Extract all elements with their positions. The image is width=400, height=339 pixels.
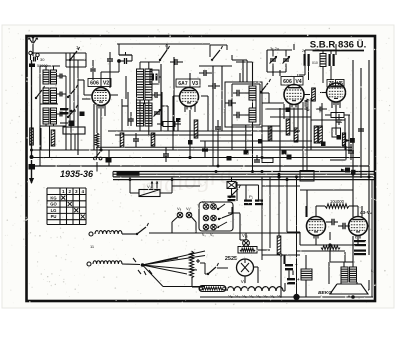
trim cross — [196, 259, 200, 263]
wire mesh tl2 — [82, 60, 91, 99]
junction band dots2 — [215, 170, 371, 181]
coil L7 — [95, 231, 122, 234]
dial cord 4 — [143, 265, 206, 287]
capacitor C18 — [326, 219, 338, 226]
wire out bot — [297, 245, 346, 251]
label 100000v — [351, 102, 353, 138]
coil L4 — [249, 108, 256, 122]
wire drop x345 — [344, 118, 346, 150]
label CT2 — [270, 46, 280, 51]
capacitor C17 + — [255, 200, 300, 285]
box IF2 — [225, 82, 262, 127]
wire drop x284 — [283, 104, 285, 119]
wire V4 plate — [304, 94, 310, 96]
capacitor C27 — [128, 112, 134, 126]
coil L2 1000 — [145, 69, 152, 100]
capacitor C3 — [57, 92, 67, 97]
resistor R22 — [194, 120, 198, 138]
resistor R8 — [151, 133, 155, 146]
wire drop x232 — [231, 125, 233, 150]
box oscillator — [128, 92, 162, 126]
ground arrow left — [29, 160, 34, 184]
wire spk side — [368, 268, 375, 290]
wire drop x322 — [321, 103, 323, 128]
svg-text:BEKO: BEKO — [318, 290, 332, 296]
label P1 — [147, 184, 153, 189]
tube V6a — [307, 217, 326, 239]
wire IF2 mid — [245, 93, 256, 115]
tube V2 — [92, 88, 110, 109]
switch S5 — [159, 43, 170, 61]
wire pot right — [160, 177, 172, 193]
wire x178 seg — [176, 118, 181, 131]
resistor R20 100000 — [325, 199, 349, 208]
trimmer CT1 — [154, 110, 161, 117]
transformer T4a — [341, 267, 348, 282]
svg-text:V₁: V₁ — [270, 294, 275, 299]
svg-text:V2: V2 — [103, 81, 109, 87]
junction J2 — [227, 156, 232, 161]
svg-text:V₆: V₆ — [210, 233, 214, 237]
wire x242 v — [241, 172, 243, 178]
node dots extra — [100, 149, 264, 174]
box out2 — [332, 128, 346, 146]
capacitor C28 — [208, 83, 220, 89]
wire v7 taps — [228, 267, 258, 283]
potentiometer P1 — [139, 190, 160, 197]
switch S10 mains — [207, 263, 219, 275]
wire L8 out — [122, 263, 140, 266]
junction dots band — [30, 149, 355, 179]
wire mains — [200, 263, 228, 274]
dial cord 2 — [143, 256, 206, 266]
svg-text:V₅: V₅ — [242, 294, 247, 299]
antenna terminal A2 — [36, 53, 39, 56]
svg-text:GO: GO — [50, 202, 57, 207]
trimmer CT2 — [270, 50, 277, 70]
svg-text:+: + — [295, 262, 298, 267]
wire mesh d3 — [270, 108, 280, 172]
selector blade3 — [217, 222, 227, 228]
wire pot left — [130, 177, 139, 193]
wire x49 drop — [49, 126, 51, 158]
svg-text:100000: 100000 — [330, 199, 345, 204]
box feedback — [300, 171, 314, 182]
label V4 — [281, 77, 303, 86]
wire vert x353 — [352, 60, 354, 217]
resistor R10 — [268, 126, 272, 141]
wire pot feed — [129, 177, 174, 181]
transformer T4b — [350, 267, 357, 282]
svg-text:+: + — [297, 277, 300, 282]
wire out vert — [297, 251, 346, 262]
svg-text:LG: LG — [51, 208, 57, 213]
coil T2a — [43, 88, 49, 103]
wire bus y131 — [108, 130, 300, 132]
wire coil mid — [40, 103, 58, 105]
wire y120 right — [311, 118, 345, 122]
wire choke vert — [305, 255, 307, 262]
wire mesh c1 — [122, 55, 132, 131]
capacitor C29 — [358, 120, 364, 140]
wire x110 — [109, 66, 111, 88]
dial hub — [141, 263, 145, 267]
lamp bank row2 — [203, 215, 216, 221]
pilot lamp box — [227, 182, 236, 189]
wire drop x218 — [217, 135, 219, 166]
capacitor C4 — [57, 112, 67, 117]
wire out x362 — [361, 206, 363, 217]
wire y160 r — [330, 146, 346, 160]
capacitor C25 — [163, 147, 169, 162]
capacitor C2 — [57, 74, 67, 79]
tube V4 — [284, 85, 304, 108]
wire v2 screen — [78, 80, 84, 88]
wire V3 plate — [201, 95, 208, 97]
lamp bank row1 — [203, 204, 216, 210]
wire vert x270b — [269, 177, 271, 248]
svg-text:3: 3 — [75, 189, 78, 194]
wire L7 out — [122, 233, 136, 235]
wire out right — [325, 206, 369, 226]
wire drop v3 — [189, 110, 191, 158]
junction J6 — [321, 142, 326, 147]
wire bus y135 — [115, 134, 252, 136]
box mid left — [63, 127, 85, 134]
wire psu mesh — [265, 248, 293, 275]
label 2525 — [225, 256, 237, 262]
dial fan extra — [143, 258, 198, 270]
wire V2 top — [101, 61, 119, 87]
wire coil bottom — [40, 124, 66, 126]
terminal T1 — [89, 232, 95, 249]
label V10 — [242, 233, 248, 238]
node left rail — [30, 155, 34, 159]
svg-text:2: 2 — [68, 189, 71, 194]
resistor R23 — [305, 99, 309, 111]
resistor R2 40000 — [145, 103, 152, 126]
svg-text:V₇: V₇ — [263, 294, 268, 299]
wire R18 box — [192, 277, 200, 287]
wire v5 pins — [332, 102, 340, 109]
junction J5 — [346, 138, 355, 143]
svg-text:30: 30 — [40, 57, 45, 62]
resistor R25 — [95, 116, 99, 158]
wire top tie — [190, 40, 336, 55]
switch S9 — [229, 185, 241, 198]
wire x349 drop — [348, 115, 350, 150]
trimmer CT3 — [283, 50, 290, 70]
wire drop x311 — [310, 110, 312, 150]
svg-text:V₂: V₂ — [228, 294, 233, 299]
junction J10 — [106, 150, 112, 166]
bottom bus thick — [200, 296, 373, 298]
wire top h44 — [101, 44, 336, 50]
wire band stub — [113, 171, 140, 177]
resistor R21 — [321, 246, 340, 250]
wire top loop1 — [119, 44, 160, 55]
wire bus y233 — [149, 232, 300, 234]
wire C30 drops — [305, 50, 335, 83]
wire out mesh2 — [300, 171, 353, 218]
junction J12 — [341, 168, 350, 173]
switch S2 — [67, 85, 78, 98]
capacitor C5 — [119, 52, 132, 64]
svg-text:V₄: V₄ — [235, 294, 240, 299]
capacitor C12 — [215, 120, 221, 135]
node C5 — [117, 59, 121, 63]
switch S3 — [67, 105, 78, 118]
wire pilot feed — [232, 182, 237, 201]
capacitor C30 — [304, 54, 310, 66]
junction J11 — [286, 108, 292, 160]
capacitor C6 — [152, 92, 162, 98]
tube V6b — [349, 217, 368, 239]
wire x41 v — [40, 128, 42, 150]
wire drop x262 — [261, 125, 263, 158]
resistor R13 — [314, 126, 318, 143]
capacitor C23 — [225, 100, 236, 107]
band table — [47, 188, 86, 225]
resistor R3 100000 — [312, 88, 316, 101]
node big — [293, 294, 299, 300]
wire psu top — [262, 254, 300, 261]
dial cord 1 — [143, 251, 206, 265]
wire S5 drop — [140, 44, 167, 69]
lamp bank labels2 — [202, 233, 214, 237]
ballast R19 — [199, 286, 226, 292]
antenna — [28, 37, 38, 51]
coil L1 1000 — [137, 69, 144, 100]
wire vert x279 — [277, 175, 280, 236]
svg-text:V₆: V₆ — [249, 294, 254, 299]
wire v4 pins — [290, 104, 298, 110]
wire out grid ties — [316, 206, 358, 217]
wire x168 drop — [167, 106, 169, 131]
capacitor C15 — [228, 194, 254, 201]
wire x66 drop — [65, 126, 67, 150]
label 43-V6 — [360, 210, 372, 216]
fuse F1 — [29, 64, 48, 69]
label Vb — [186, 206, 191, 211]
resistor R16 15000 — [277, 236, 281, 254]
capacitor C19 — [338, 223, 350, 230]
svg-text:V₅: V₅ — [202, 233, 206, 237]
wire V2 plate — [111, 94, 119, 96]
wire band y174 — [113, 173, 374, 175]
wire osc bottom — [137, 100, 145, 104]
wire bus y157 — [32, 157, 361, 159]
label Va — [177, 206, 182, 211]
junction J8 — [258, 139, 356, 175]
wire left col v2 — [69, 53, 71, 126]
capacitor C26 — [90, 63, 96, 76]
svg-text:V₃: V₃ — [256, 294, 261, 299]
resistor R1 40000 — [137, 103, 144, 126]
wire vert x262b — [261, 177, 263, 260]
svg-text:V₁₀: V₁₀ — [242, 233, 248, 238]
lamp bank row3 — [203, 224, 216, 230]
coil T1a — [43, 70, 49, 84]
resistor R6 — [51, 130, 55, 146]
capacitor C32 stack — [60, 108, 76, 114]
wire vert x369 — [368, 60, 370, 255]
resistor R11 — [286, 119, 290, 135]
wire V3 grid — [173, 95, 179, 97]
wire band y177 — [113, 176, 374, 178]
wire vert x296 — [296, 177, 298, 297]
wire drop x140 — [139, 100, 141, 131]
wire mesh c4 — [232, 55, 247, 82]
tube V3 — [180, 88, 199, 110]
svg-text:1: 1 — [62, 189, 65, 194]
wire mesh tl1 — [66, 53, 86, 126]
caption 1935-36 — [60, 169, 94, 179]
svg-text:606: 606 — [90, 81, 99, 87]
svg-text:4: 4 — [81, 189, 84, 194]
wire lamp frame — [172, 217, 196, 233]
capacitor C24 — [202, 141, 208, 158]
choke CH1 — [301, 269, 312, 280]
wire drop x252 — [252, 122, 254, 172]
wire pilot top — [231, 177, 233, 182]
svg-text:1935-36: 1935-36 — [60, 169, 94, 179]
wire out cathode — [300, 236, 358, 246]
ballast box R17 — [238, 247, 257, 254]
coil T2b — [51, 88, 57, 103]
switch S8 — [136, 223, 149, 235]
heater labels — [228, 294, 282, 299]
pot arrows — [151, 182, 158, 189]
capacitor C8 — [233, 90, 245, 97]
resistor R12 — [294, 128, 298, 142]
wire v2 top2 — [92, 60, 94, 80]
capacitor C9 — [233, 112, 245, 119]
label BEKO — [318, 290, 332, 296]
svg-text:P₁: P₁ — [249, 194, 254, 199]
wire mesh v2left — [78, 95, 103, 155]
wire drop x208 — [207, 96, 209, 131]
coil T3b — [51, 108, 57, 124]
left rail wire — [31, 60, 33, 157]
wire IF2 stem — [252, 80, 254, 108]
wire selector out — [228, 207, 240, 214]
wire top y44 — [117, 43, 210, 45]
wire right top — [352, 55, 354, 60]
coil L8 — [93, 261, 122, 264]
svg-text:V₈: V₈ — [177, 206, 182, 211]
wire vert x287 — [287, 177, 300, 232]
wire x40 drop — [39, 126, 41, 166]
wire out bias — [330, 236, 353, 262]
resistor R4 250000 — [325, 113, 350, 118]
wire choke ties — [300, 232, 306, 297]
wire V10 feed — [240, 214, 246, 241]
ground blob — [29, 164, 36, 170]
cap box C33 — [150, 70, 161, 84]
dial cord 3 — [143, 265, 188, 274]
wire bus y150 — [32, 147, 353, 150]
capacitor C13 — [348, 144, 354, 160]
wire mesh c2 — [199, 66, 232, 131]
selector blade1 — [217, 204, 225, 210]
svg-text:010: 010 — [312, 61, 318, 65]
box speaker housing — [329, 258, 369, 284]
wire v5 grid — [320, 88, 327, 97]
capacitor C21 — [107, 52, 113, 66]
wire spk bus — [330, 295, 349, 297]
wire x213 ext — [212, 131, 214, 166]
junction J13 — [328, 243, 354, 298]
coil L3 — [249, 86, 256, 100]
capacitor C20 stack — [354, 240, 366, 255]
switch S7 — [260, 79, 271, 93]
wire mesh d2 — [262, 109, 341, 147]
lamp Va — [177, 212, 183, 218]
wire top drops — [119, 40, 190, 55]
label V5 — [327, 80, 344, 88]
label C30 — [302, 49, 318, 65]
title S.B.R 836 U. — [310, 40, 367, 51]
coil T1b — [51, 70, 57, 84]
wire S4 box — [66, 53, 86, 67]
wire coil top — [40, 66, 60, 70]
resistor R15 — [262, 158, 273, 163]
junction J3 — [282, 150, 287, 155]
speaker cone — [330, 282, 368, 294]
wire trim drops3 — [267, 50, 286, 76]
wire drop v2 — [100, 106, 102, 150]
coil T3a — [43, 108, 49, 124]
capacitor C11 — [133, 133, 139, 147]
wire osc stub — [122, 105, 168, 107]
lamp bank labels — [202, 201, 214, 205]
switch S6 — [211, 46, 223, 61]
selector blade2 — [218, 214, 232, 220]
terminal T2 — [87, 262, 91, 266]
svg-text:PU: PU — [51, 214, 57, 219]
resistor R5 — [30, 128, 34, 145]
wire terminals run — [33, 53, 66, 60]
junction J7 — [188, 140, 193, 145]
wire drop x336 — [335, 106, 337, 136]
wire drop x173 — [172, 96, 174, 150]
wire v2 pins — [97, 105, 105, 117]
resistor R14 — [319, 126, 323, 143]
wire antenna to rail — [31, 51, 34, 60]
wire drop x148 — [148, 100, 150, 135]
capacitor C1 — [34, 57, 46, 63]
lamp V10 — [243, 240, 250, 247]
wire v4 drops — [290, 110, 298, 141]
svg-text:V3: V3 — [192, 81, 198, 87]
wire v3 pins — [185, 105, 195, 112]
selector frame — [199, 202, 233, 231]
resistor R24 small — [80, 112, 85, 117]
wire drop x270 — [269, 126, 271, 141]
resistor R9 30000 — [157, 122, 181, 127]
wire bus y297 — [200, 296, 373, 298]
wire bus y166 — [32, 165, 370, 167]
dial ticks — [133, 258, 152, 275]
switch S4 — [69, 45, 80, 61]
svg-text:KG: KG — [50, 195, 56, 200]
capacitor C10 — [316, 102, 336, 112]
antenna terminal A1 — [29, 51, 32, 54]
coil L5 — [320, 54, 326, 67]
wire S6 bracket — [210, 45, 227, 57]
switch S1 — [35, 86, 45, 99]
